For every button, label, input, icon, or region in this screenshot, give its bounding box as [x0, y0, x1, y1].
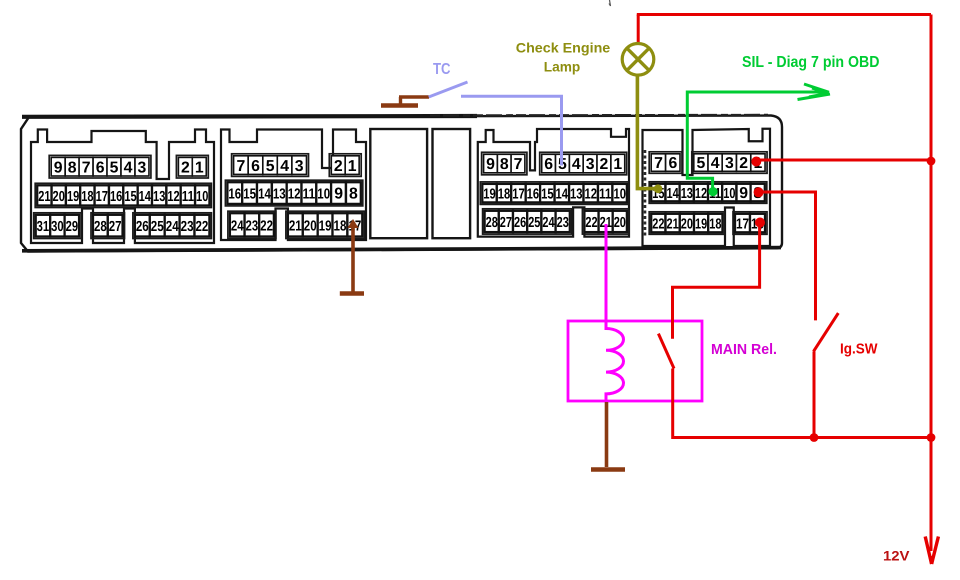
connector J2 shell [221, 130, 366, 241]
svg-text:12: 12 [695, 186, 707, 202]
svg-text:5: 5 [266, 158, 275, 175]
svg-text:7: 7 [237, 158, 246, 175]
svg-text:4: 4 [280, 158, 289, 175]
wire: red rail to lamp [637, 15, 640, 45]
J1 pins 9-3 [49, 155, 151, 178]
svg-text:13: 13 [153, 189, 165, 205]
ground: under J2 pin 17 [340, 291, 364, 296]
12V arrow [930, 437, 933, 551]
svg-text:20: 20 [53, 189, 65, 205]
svg-text:21: 21 [289, 218, 302, 234]
wire: red J4 pin 16 to relay switch [673, 222, 760, 339]
J1 pins 31-29 [34, 213, 81, 239]
J2 pins 7-3 [232, 154, 309, 177]
svg-text:29: 29 [66, 219, 79, 235]
J2 pins 16-8 [225, 180, 362, 206]
svg-text:2: 2 [334, 158, 343, 175]
svg-text:10: 10 [723, 186, 735, 202]
J4 pins 7-6 [649, 152, 682, 174]
scan artifact dashes [430, 114, 768, 117]
wire: magenta J3 pin 21 to relay coil [605, 224, 608, 330]
svg-text:19: 19 [695, 217, 707, 233]
svg-text:13: 13 [681, 186, 693, 202]
svg-text:19: 19 [483, 187, 496, 203]
svg-text:18: 18 [498, 187, 511, 203]
svg-text:2: 2 [739, 155, 748, 172]
svg-text:11: 11 [303, 187, 316, 203]
svg-text:14: 14 [667, 186, 680, 202]
svg-text:28: 28 [94, 219, 107, 235]
svg-text:22: 22 [585, 215, 597, 231]
svg-text:11: 11 [599, 187, 612, 203]
svg-text:4: 4 [711, 155, 720, 172]
wire: TC to J3 pin 5 [461, 96, 562, 165]
svg-text:2: 2 [181, 159, 190, 176]
svg-text:15: 15 [541, 187, 554, 203]
connector J3 shell [478, 129, 629, 237]
svg-text:22: 22 [260, 218, 273, 234]
svg-text:23: 23 [181, 219, 194, 235]
wire: brown relay coil to ground [605, 402, 609, 467]
svg-text:6: 6 [96, 159, 105, 176]
wire: red right rail [930, 15, 933, 440]
svg-text:14: 14 [258, 187, 271, 203]
svg-text:19: 19 [67, 189, 79, 205]
svg-text:10: 10 [317, 187, 330, 203]
svg-text:16: 16 [110, 189, 122, 205]
wire: Ig.SW to bottom rail [813, 351, 816, 437]
SIL arrow head [798, 84, 831, 100]
svg-text:9: 9 [739, 185, 748, 202]
J2 pins 2-1 [329, 154, 361, 177]
svg-text:9: 9 [486, 156, 495, 173]
svg-text:18: 18 [334, 218, 347, 234]
svg-text:1: 1 [348, 158, 357, 175]
svg-text:30: 30 [51, 219, 64, 235]
svg-text:1: 1 [613, 156, 622, 173]
J1 pins 2-1 [176, 155, 208, 178]
blank slot B [433, 129, 471, 238]
relay coil [606, 329, 624, 403]
svg-text:22: 22 [652, 217, 664, 233]
svg-text:17: 17 [96, 189, 108, 205]
svg-text:16: 16 [228, 187, 241, 203]
svg-text:13: 13 [570, 187, 583, 203]
junction dot at J4 pin 11 [708, 187, 717, 196]
J4 pins 17-16 [733, 212, 767, 235]
svg-text:15: 15 [124, 189, 136, 205]
svg-text:26: 26 [514, 215, 526, 231]
svg-text:21: 21 [667, 217, 679, 233]
svg-text:13: 13 [273, 187, 286, 203]
svg-text:MAIN Rel.: MAIN Rel. [711, 342, 777, 358]
svg-text:23: 23 [557, 215, 569, 231]
svg-text:7: 7 [654, 155, 663, 172]
svg-text:3: 3 [295, 158, 304, 175]
svg-text:14: 14 [139, 189, 152, 205]
svg-text:22: 22 [195, 219, 208, 235]
svg-text:23: 23 [246, 218, 259, 234]
svg-text:25: 25 [528, 215, 540, 231]
svg-text:3: 3 [138, 159, 147, 176]
svg-text:17: 17 [512, 187, 525, 203]
svg-text:6: 6 [544, 156, 553, 173]
svg-text:17: 17 [736, 217, 749, 233]
junction: right rail / pin1 wire [927, 157, 936, 166]
J3 pins 6-1 [540, 152, 627, 175]
J3 pins 28-23 [483, 209, 572, 234]
svg-text:10: 10 [196, 189, 208, 205]
svg-text:Lamp: Lamp [544, 59, 581, 74]
svg-text:1: 1 [195, 159, 204, 176]
J4 pins 5-1 [692, 152, 767, 174]
J1 pins 28-27 [91, 213, 125, 239]
switch TC lever [429, 82, 468, 97]
svg-text:7: 7 [82, 159, 91, 176]
connector J1 shell [31, 130, 214, 244]
wire: green SIL to J4 pin 11 [687, 92, 824, 189]
svg-text:9: 9 [54, 159, 63, 176]
svg-text:7: 7 [514, 156, 523, 173]
svg-text:20: 20 [614, 215, 626, 231]
svg-text:28: 28 [486, 215, 498, 231]
J1 pins 26-22 [133, 213, 212, 239]
J3 pins 22-20 [582, 209, 629, 234]
J2 pins 21-17 [286, 211, 364, 238]
svg-text:Check Engine: Check Engine [516, 41, 611, 56]
svg-text:SIL - Diag 7 pin OBD: SIL - Diag 7 pin OBD [742, 54, 880, 71]
svg-text:12: 12 [585, 187, 598, 203]
svg-text:12: 12 [288, 187, 301, 203]
ground: TC switch [381, 97, 429, 106]
svg-text:20: 20 [681, 217, 693, 233]
svg-text:31: 31 [37, 219, 50, 235]
svg-text:8: 8 [500, 156, 509, 173]
svg-text:5: 5 [697, 155, 706, 172]
J3 pins 9-7 [482, 152, 527, 175]
J1 pins 21-10 [35, 183, 211, 207]
svg-text:15: 15 [243, 187, 256, 203]
scan speck top [609, 0, 611, 6]
svg-text:8: 8 [68, 159, 77, 176]
wire: red J4 pin 1 to right rail [758, 159, 931, 162]
svg-text:24: 24 [166, 219, 180, 235]
svg-text:18: 18 [81, 189, 93, 205]
relay MAIN Rel. box [568, 321, 702, 401]
svg-text:5: 5 [110, 159, 119, 176]
junction: bottom rail / Ig.SW [810, 433, 819, 442]
svg-text:12: 12 [167, 189, 179, 205]
svg-text:27: 27 [109, 219, 122, 235]
svg-text:12V: 12V [883, 549, 910, 564]
svg-text:TC: TC [433, 61, 451, 78]
J4 pins 15-8 [649, 182, 767, 204]
J3 pins 19-10 [480, 182, 629, 205]
J2 pins 24-22 [228, 211, 276, 238]
wire: relay switch to bottom rail [673, 369, 931, 438]
svg-text:11: 11 [182, 189, 194, 205]
relay switch lever [658, 334, 674, 369]
svg-text:24: 24 [542, 215, 555, 231]
svg-text:4: 4 [572, 156, 581, 173]
junction dot at J4 pin 15 [654, 184, 663, 193]
scan hatch between J3 and J4 [644, 150, 647, 238]
svg-text:18: 18 [709, 217, 721, 233]
svg-text:21: 21 [38, 189, 50, 205]
ground: under relay [591, 467, 625, 472]
svg-text:Ig.SW: Ig.SW [840, 342, 878, 358]
blank slot A [370, 129, 427, 238]
wire: brown J2 pin 17 to ground [351, 222, 355, 293]
label Check Engine Lamp [516, 41, 611, 75]
svg-text:6: 6 [251, 158, 260, 175]
J4 pins 22-18 [649, 212, 724, 235]
svg-text:24: 24 [231, 218, 244, 234]
svg-text:25: 25 [151, 219, 164, 235]
svg-text:8: 8 [349, 186, 358, 203]
svg-text:3: 3 [586, 156, 595, 173]
connector J4 shell [643, 129, 771, 246]
wire: olive lamp to J4 pin 15 [637, 75, 654, 189]
lamp: Check Engine (circle-X) [622, 44, 654, 76]
svg-text:2: 2 [600, 156, 609, 173]
svg-text:14: 14 [556, 187, 569, 203]
svg-text:3: 3 [725, 155, 734, 172]
wire: red 12V top rail [637, 13, 931, 16]
svg-text:4: 4 [124, 159, 133, 176]
switch Ig.SW lever [814, 313, 839, 351]
svg-text:20: 20 [304, 218, 317, 234]
svg-text:27: 27 [500, 215, 512, 231]
svg-text:19: 19 [319, 218, 332, 234]
svg-text:16: 16 [527, 187, 540, 203]
ECU case outline [21, 116, 782, 252]
svg-text:9: 9 [334, 186, 343, 203]
wire: red J4 pin 8 to Ig.SW [759, 192, 816, 320]
svg-text:6: 6 [669, 155, 678, 172]
junction: bottom rail / right rail [927, 433, 936, 442]
svg-text:10: 10 [613, 187, 626, 203]
svg-text:26: 26 [136, 219, 149, 235]
